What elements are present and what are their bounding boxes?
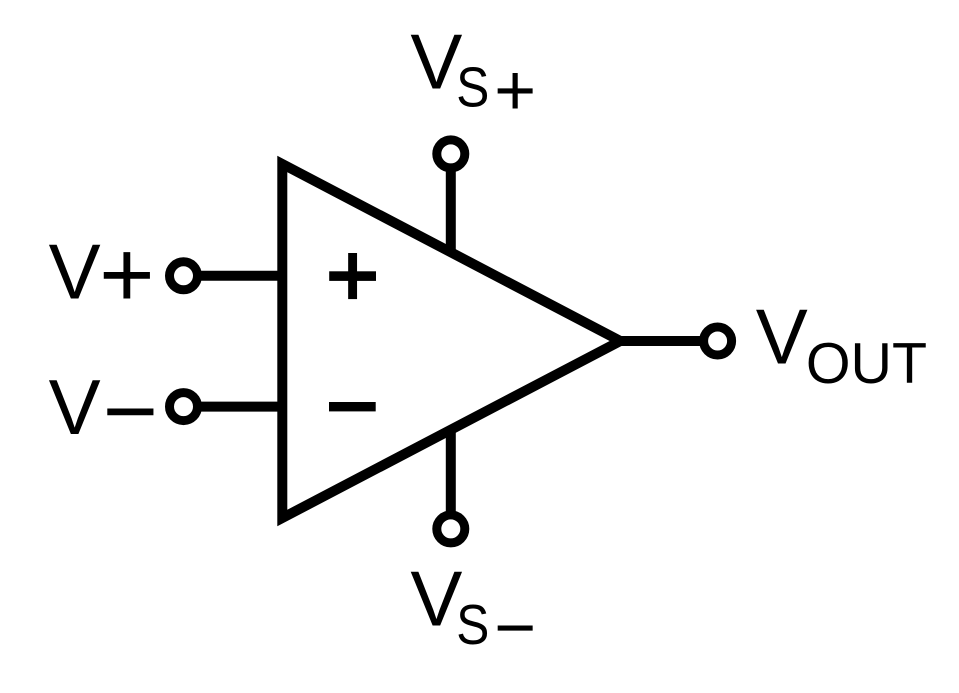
svg-text:V: V xyxy=(410,17,462,105)
op-amp triangle body xyxy=(282,164,620,518)
svg-text:V: V xyxy=(756,293,808,381)
wire: negative supply lead xyxy=(446,426,456,529)
svg-text:V: V xyxy=(49,363,101,451)
svg-text:S: S xyxy=(456,594,489,657)
terminal circle: V- input xyxy=(170,393,198,421)
svg-text:−: − xyxy=(103,359,158,465)
label VOUT xyxy=(756,293,927,397)
label VS+ xyxy=(410,17,536,130)
terminal circle: VS+ supply xyxy=(437,140,465,168)
terminal circle: VS- supply xyxy=(437,515,465,543)
svg-text:S: S xyxy=(456,56,489,119)
svg-text:V: V xyxy=(49,227,101,315)
label V+ xyxy=(49,222,155,328)
svg-text:V: V xyxy=(410,555,462,643)
svg-text:+: + xyxy=(99,222,154,328)
svg-text:OUT: OUT xyxy=(806,332,927,396)
wire: output lead xyxy=(612,336,718,346)
svg-text:−: − xyxy=(494,588,536,668)
wire: positive supply lead xyxy=(446,154,456,256)
wire: inverting input lead xyxy=(184,402,287,412)
plus mark (non-inverting input) xyxy=(329,253,376,299)
wire: non-inverting input lead xyxy=(184,271,287,281)
label VS- xyxy=(410,555,536,668)
label V- xyxy=(49,359,158,465)
terminal circle: VOUT output xyxy=(704,327,732,355)
minus mark (inverting input) xyxy=(329,402,376,411)
svg-text:+: + xyxy=(494,51,536,131)
terminal circle: V+ input xyxy=(170,262,198,290)
